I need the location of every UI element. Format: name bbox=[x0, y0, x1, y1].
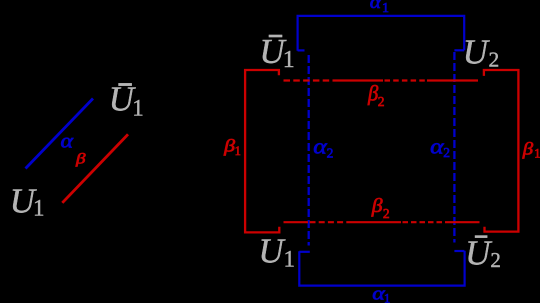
svg-text:1: 1 bbox=[382, 1, 389, 16]
svg-text:α: α bbox=[61, 132, 74, 153]
label alpha1 top (blue) bbox=[370, 0, 389, 16]
label beta2 top (red) bbox=[367, 80, 384, 109]
dashed line beta2 bottom (red horizontal) bbox=[284, 221, 480, 223]
svg-text:U: U bbox=[465, 234, 493, 273]
dashed line alpha2 left (blue vertical) bbox=[308, 55, 310, 246]
dashed line alpha2 right (blue vertical) bbox=[453, 52, 455, 243]
svg-text:2: 2 bbox=[378, 94, 385, 109]
svg-text:2: 2 bbox=[490, 248, 501, 272]
svg-text:2: 2 bbox=[327, 146, 334, 161]
svg-text:β: β bbox=[75, 151, 87, 167]
svg-text:1: 1 bbox=[384, 291, 390, 303]
node U1 (left diagram, bottom-left) bbox=[10, 182, 45, 221]
svg-text:α: α bbox=[370, 0, 382, 13]
node U2-bar (square bottom-right) bbox=[465, 234, 501, 273]
label beta1 left (red) bbox=[223, 135, 241, 158]
svg-text:U: U bbox=[463, 32, 491, 71]
svg-text:β: β bbox=[367, 80, 378, 105]
map beta line (red diagonal) bbox=[62, 134, 128, 203]
svg-text:2: 2 bbox=[443, 145, 450, 160]
svg-text:1: 1 bbox=[283, 47, 295, 73]
svg-text:1: 1 bbox=[284, 246, 296, 271]
svg-text:U: U bbox=[258, 232, 286, 271]
svg-text:β: β bbox=[522, 139, 534, 159]
node U2 (square top-right) bbox=[463, 32, 500, 71]
svg-text:1: 1 bbox=[132, 96, 144, 121]
svg-text:2: 2 bbox=[489, 48, 500, 72]
label alpha2 right (blue) bbox=[430, 134, 450, 161]
dashed line beta2 top (red horizontal) bbox=[284, 79, 479, 81]
bracket alpha1 bottom (blue) bbox=[299, 251, 464, 286]
bracket beta1 left (red) bbox=[245, 70, 279, 232]
node U1 (square bottom-left) bbox=[258, 232, 295, 272]
svg-text:1: 1 bbox=[33, 196, 45, 221]
node U1-bar (square top-left) bbox=[259, 32, 294, 73]
label alpha1 bottom (blue) bbox=[372, 284, 390, 303]
label beta2 bottom (red) bbox=[371, 196, 390, 221]
svg-text:β: β bbox=[223, 135, 235, 155]
bracket beta1 right (red) bbox=[484, 70, 519, 232]
svg-text:α: α bbox=[313, 134, 327, 159]
svg-text:1: 1 bbox=[534, 146, 540, 160]
label alpha2 left (blue) bbox=[313, 134, 333, 161]
svg-text:1: 1 bbox=[235, 144, 241, 158]
node U1-bar (left diagram, upper) bbox=[109, 80, 144, 121]
map alpha line (blue diagonal) bbox=[26, 99, 94, 169]
bracket alpha1 top (blue) bbox=[298, 16, 465, 51]
svg-text:2: 2 bbox=[383, 206, 390, 221]
svg-text:β: β bbox=[371, 196, 383, 217]
label beta1 right (red) bbox=[522, 139, 540, 161]
svg-text:α: α bbox=[430, 134, 444, 159]
